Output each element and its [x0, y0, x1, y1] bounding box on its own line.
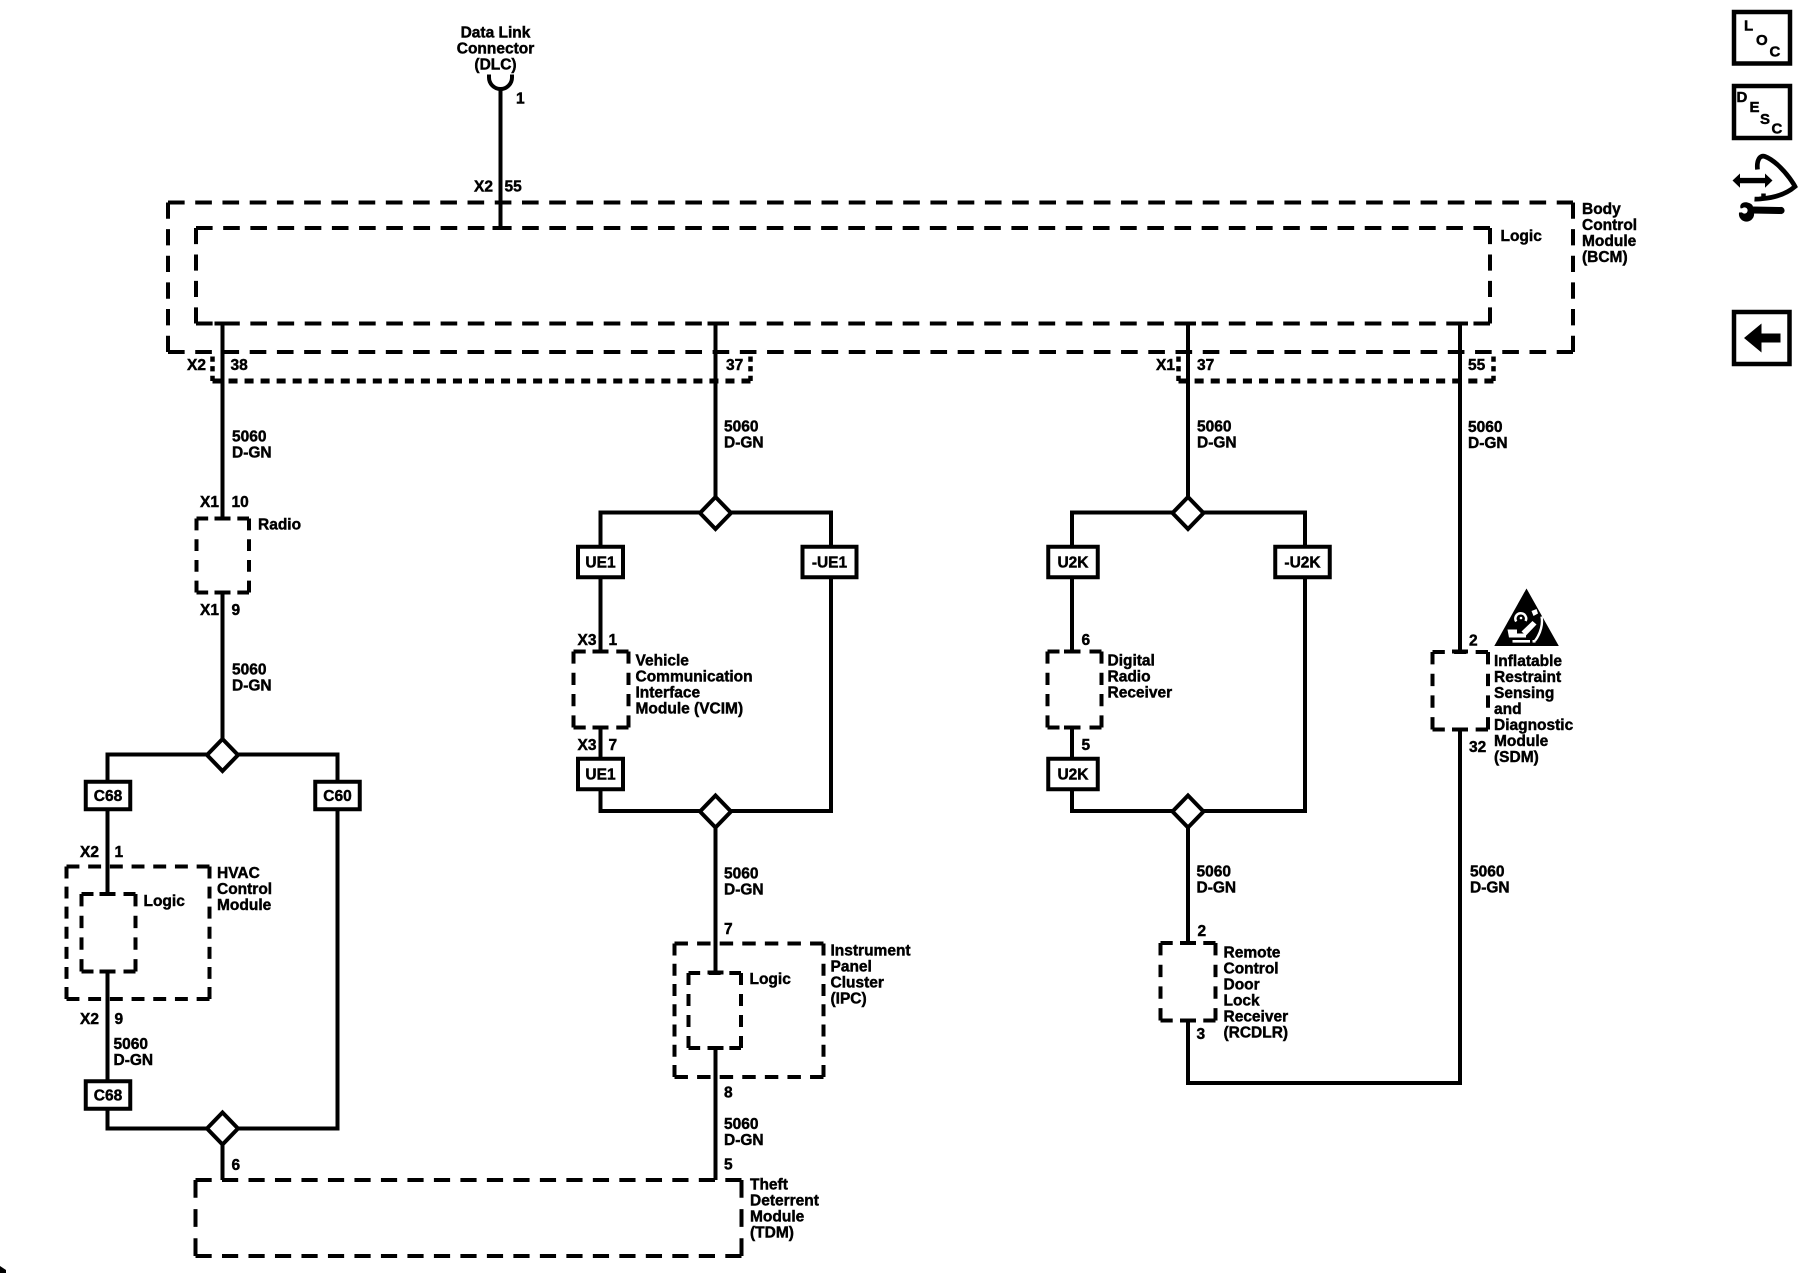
svg-text:D-GN: D-GN [1470, 880, 1510, 897]
module box: HVAC Control Module dashed outline [67, 865, 210, 869]
wire: C68 lower to bottom loop [106, 1107, 110, 1129]
wire: VCIM loop bottom horizontal [599, 809, 834, 813]
svg-text:5: 5 [724, 1157, 733, 1174]
svg-text:Lock: Lock [1224, 993, 1261, 1010]
svg-text:Vehicle: Vehicle [636, 653, 690, 670]
svg-text:Logic: Logic [750, 971, 792, 988]
svg-text:Logic: Logic [144, 893, 186, 910]
wire: Radio down to splice diamond [215, 591, 231, 595]
icon: diagnostic arrows and wrench [1733, 156, 1796, 221]
svg-text:Instrument: Instrument [831, 943, 911, 960]
icon: back arrow box [1734, 312, 1790, 364]
label: Data Link Connector (DLC) [457, 25, 535, 74]
svg-text:O: O [1756, 32, 1768, 49]
svg-text:Module (VCIM): Module (VCIM) [636, 701, 744, 718]
svg-text:Receiver: Receiver [1108, 685, 1173, 702]
svg-text:37: 37 [726, 357, 743, 374]
svg-text:D-GN: D-GN [1197, 880, 1237, 897]
svg-text:1: 1 [609, 632, 618, 649]
svg-text:HVAC: HVAC [217, 865, 260, 882]
component: Digital Radio Receiver dashed box [1048, 650, 1102, 654]
svg-text:Inflatable: Inflatable [1494, 653, 1562, 670]
wire: HVAC logic down to C68 lower [100, 970, 116, 974]
svg-text:5060: 5060 [1470, 864, 1504, 881]
BCM connector X2 dotted outline [213, 357, 751, 382]
module box: Theft Deterrent Module (TDM) dashed outline [196, 1178, 742, 1182]
IPC internal Logic dashed box [689, 971, 742, 975]
svg-text:C68: C68 [94, 1088, 123, 1105]
svg-text:Interface: Interface [636, 685, 701, 702]
svg-text:Diagnostic: Diagnostic [1494, 717, 1574, 734]
wire: IPC logic down to TDM pin 5 [708, 1046, 724, 1050]
HVAC internal Logic dashed box [82, 892, 136, 896]
wire: left leg down to DRR [1070, 513, 1074, 652]
svg-text:-U2K: -U2K [1284, 555, 1321, 572]
wire: HVAC loop top horizontal [106, 753, 340, 757]
svg-text:2: 2 [1198, 923, 1207, 940]
svg-text:Module: Module [1494, 733, 1549, 750]
svg-text:32: 32 [1469, 739, 1486, 756]
wire: DLC pin 1 down to BCM X2-55 [499, 89, 503, 228]
svg-text:L: L [1744, 18, 1753, 35]
svg-text:D-GN: D-GN [724, 435, 764, 452]
svg-text:Theft: Theft [750, 1177, 788, 1194]
component: Radio dashed box [197, 517, 250, 521]
svg-text:10: 10 [232, 494, 249, 511]
svg-text:6: 6 [1082, 632, 1091, 649]
svg-text:8: 8 [724, 1085, 733, 1102]
wire: right leg down through C60 to bottom loop [336, 755, 340, 1129]
svg-text:(DLC): (DLC) [474, 57, 516, 74]
BCM connector X1 dotted outline [1179, 357, 1494, 382]
svg-text:6: 6 [232, 1157, 241, 1174]
icon: LOC box [1734, 12, 1790, 64]
svg-text:Sensing: Sensing [1494, 685, 1554, 702]
svg-text:Panel: Panel [831, 959, 872, 976]
svg-text:9: 9 [115, 1011, 124, 1028]
wire: DRR down through U2K to bottom loop [1064, 726, 1080, 730]
connector box C68 (upper) [86, 782, 131, 810]
svg-text:Body: Body [1582, 201, 1621, 218]
svg-text:and: and [1494, 701, 1522, 718]
svg-text:X1: X1 [200, 602, 219, 619]
label: HVAC Control Module [217, 865, 272, 914]
svg-text:X1: X1 [1156, 357, 1175, 374]
svg-text:X3: X3 [578, 632, 597, 649]
svg-text:S: S [1760, 111, 1770, 128]
svg-text:X2: X2 [187, 357, 206, 374]
wire: RCDLR pin 3 down and right to SDM branch [1180, 1019, 1196, 1023]
component: Inflatable Restraint SDM dashed box [1433, 650, 1489, 654]
svg-text:Module: Module [217, 897, 272, 914]
svg-text:C: C [1770, 44, 1781, 61]
label: Body Control Module (BCM) [1582, 201, 1637, 266]
splice diamond (Radio branch) [207, 739, 238, 771]
svg-text:5060: 5060 [724, 866, 758, 883]
wire: BCM 38 down to Radio [221, 324, 225, 519]
label: Vehicle Communication Interface Module (VCIM) [636, 653, 753, 718]
module box: Body Control Module (BCM) dashed outline [168, 201, 1573, 205]
svg-text:(IPC): (IPC) [831, 991, 867, 1008]
svg-text:(SDM): (SDM) [1494, 749, 1539, 766]
wire: DRR loop bottom horizontal [1070, 809, 1307, 813]
wire: DRR loop top horizontal [1070, 511, 1307, 515]
svg-text:UE1: UE1 [585, 767, 616, 784]
svg-text:-UE1: -UE1 [812, 555, 848, 572]
svg-text:Receiver: Receiver [1224, 1009, 1289, 1026]
wire: left leg down to VCIM [599, 513, 603, 652]
page corner mark [0, 1266, 6, 1273]
svg-text:D-GN: D-GN [1197, 435, 1237, 452]
svg-text:Control: Control [1224, 961, 1279, 978]
svg-text:3: 3 [1197, 1026, 1206, 1043]
wire: BCM X1-37 down to splice [1186, 324, 1190, 498]
svg-text:5060: 5060 [1197, 864, 1231, 881]
net box UE1 (upper) [578, 547, 623, 578]
svg-text:D-GN: D-GN [232, 678, 272, 695]
label: Remote Control Door Lock Receiver (RCDLR) [1224, 945, 1289, 1042]
wire: C68 to HVAC logic [106, 807, 110, 894]
component: Remote Control Door Lock Receiver dashed box [1161, 941, 1216, 945]
net box U2K (upper) [1048, 547, 1098, 578]
svg-text:Connector: Connector [457, 41, 535, 58]
connector: Data Link Connector (DLC) half-circle symbol [489, 75, 512, 90]
svg-text:5060: 5060 [1468, 419, 1502, 436]
svg-text:X2: X2 [80, 1011, 99, 1028]
svg-text:Logic: Logic [1501, 228, 1543, 245]
label: Inflatable Restraint Sensing and Diagnostic Module (SDM) [1494, 653, 1574, 766]
wire: SDM pin 32 down to junction with RCDLR [1452, 728, 1468, 732]
wire: VCIM down through UE1 to bottom loop [593, 726, 609, 730]
svg-text:Remote: Remote [1224, 945, 1281, 962]
svg-text:Module: Module [750, 1209, 805, 1226]
svg-text:X1: X1 [200, 494, 219, 511]
svg-text:X2: X2 [80, 844, 99, 861]
wire: right leg through -UE1 down to bottom [829, 513, 833, 812]
BCM internal Logic dashed box [196, 226, 1490, 230]
svg-text:Door: Door [1224, 977, 1260, 994]
svg-text:5060: 5060 [114, 1036, 148, 1053]
wire: bottom loop horizontal [106, 1127, 340, 1131]
svg-text:U2K: U2K [1057, 767, 1089, 784]
svg-text:Restraint: Restraint [1494, 669, 1561, 686]
connector box C60 [315, 782, 360, 810]
svg-text:C68: C68 [94, 788, 123, 805]
wire terminator tick at BCM logic top [493, 226, 509, 230]
svg-text:E: E [1750, 99, 1760, 116]
svg-text:D-GN: D-GN [1468, 435, 1508, 452]
svg-text:D-GN: D-GN [724, 1132, 764, 1149]
splice diamond (DRR loop top) [1173, 497, 1204, 529]
svg-text:5060: 5060 [232, 662, 266, 679]
svg-text:UE1: UE1 [585, 555, 616, 572]
svg-text:1: 1 [115, 844, 124, 861]
wire: splice down to TDM pin 6 [221, 1145, 225, 1181]
wire: left leg down to C68 [106, 755, 110, 785]
svg-text:(RCDLR): (RCDLR) [1224, 1025, 1289, 1042]
svg-text:D-GN: D-GN [232, 445, 272, 462]
svg-text:Deterrent: Deterrent [750, 1193, 819, 1210]
svg-text:9: 9 [232, 602, 241, 619]
svg-text:55: 55 [1468, 357, 1486, 374]
svg-text:Data Link: Data Link [461, 25, 531, 42]
svg-text:5060: 5060 [724, 419, 758, 436]
svg-text:C: C [1772, 121, 1783, 138]
svg-text:1: 1 [516, 91, 525, 108]
net box U2K (lower) [1048, 759, 1098, 790]
svg-text:5: 5 [1082, 737, 1091, 754]
label: Instrument Panel Cluster (IPC) [831, 943, 911, 1008]
svg-text:5060: 5060 [1197, 419, 1231, 436]
warning triangle: airbag caution symbol [1494, 589, 1559, 647]
svg-text:5060: 5060 [724, 1116, 758, 1133]
label: Digital Radio Receiver [1108, 653, 1173, 702]
net box -UE1 [803, 547, 857, 578]
label: Theft Deterrent Module (TDM) [750, 1177, 819, 1242]
svg-text:Cluster: Cluster [831, 975, 884, 992]
svg-text:Module: Module [1582, 233, 1637, 250]
svg-text:7: 7 [724, 921, 733, 938]
svg-text:55: 55 [505, 179, 523, 196]
net box -U2K [1275, 547, 1330, 578]
net box UE1 (lower) [578, 759, 623, 790]
svg-text:Control: Control [1582, 217, 1637, 234]
svg-text:Radio: Radio [258, 517, 301, 534]
svg-text:C60: C60 [323, 788, 351, 805]
wire: splice down to IPC [714, 828, 718, 973]
svg-text:X3: X3 [578, 737, 597, 754]
svg-text:7: 7 [609, 737, 618, 754]
svg-text:Radio: Radio [1108, 669, 1151, 686]
svg-text:U2K: U2K [1057, 555, 1089, 572]
svg-text:Control: Control [217, 881, 272, 898]
wire: splice down to RCDLR [1186, 828, 1190, 944]
svg-text:D-GN: D-GN [114, 1052, 154, 1069]
module box: Instrument Panel Cluster dashed outline [675, 942, 824, 946]
splice diamond (VCIM loop bottom) [700, 796, 731, 828]
component: Vehicle Communication Interface Module dashed box [574, 650, 629, 654]
svg-text:X2: X2 [474, 179, 493, 196]
splice diamond (TDM branch) [207, 1113, 238, 1145]
svg-text:(TDM): (TDM) [750, 1225, 794, 1242]
svg-text:2: 2 [1469, 633, 1478, 650]
svg-text:D: D [1737, 89, 1748, 106]
connector box C68 (lower) [86, 1081, 131, 1109]
svg-text:5060: 5060 [232, 429, 266, 446]
wire: right leg through -U2K down to bottom [1303, 513, 1307, 812]
svg-text:37: 37 [1197, 357, 1214, 374]
svg-text:38: 38 [231, 357, 249, 374]
svg-text:D-GN: D-GN [724, 882, 764, 899]
splice diamond (VCIM loop top) [700, 497, 731, 529]
icon: DESC box [1734, 86, 1790, 138]
svg-text:Communication: Communication [636, 669, 753, 686]
wire: VCIM loop top horizontal [599, 511, 834, 515]
wire: BCM 37 down to splice [714, 324, 718, 498]
splice diamond (DRR loop bottom) [1173, 796, 1204, 828]
wire: BCM 55 down to SDM [1458, 324, 1462, 652]
svg-text:(BCM): (BCM) [1582, 249, 1628, 266]
svg-text:Digital: Digital [1108, 653, 1155, 670]
